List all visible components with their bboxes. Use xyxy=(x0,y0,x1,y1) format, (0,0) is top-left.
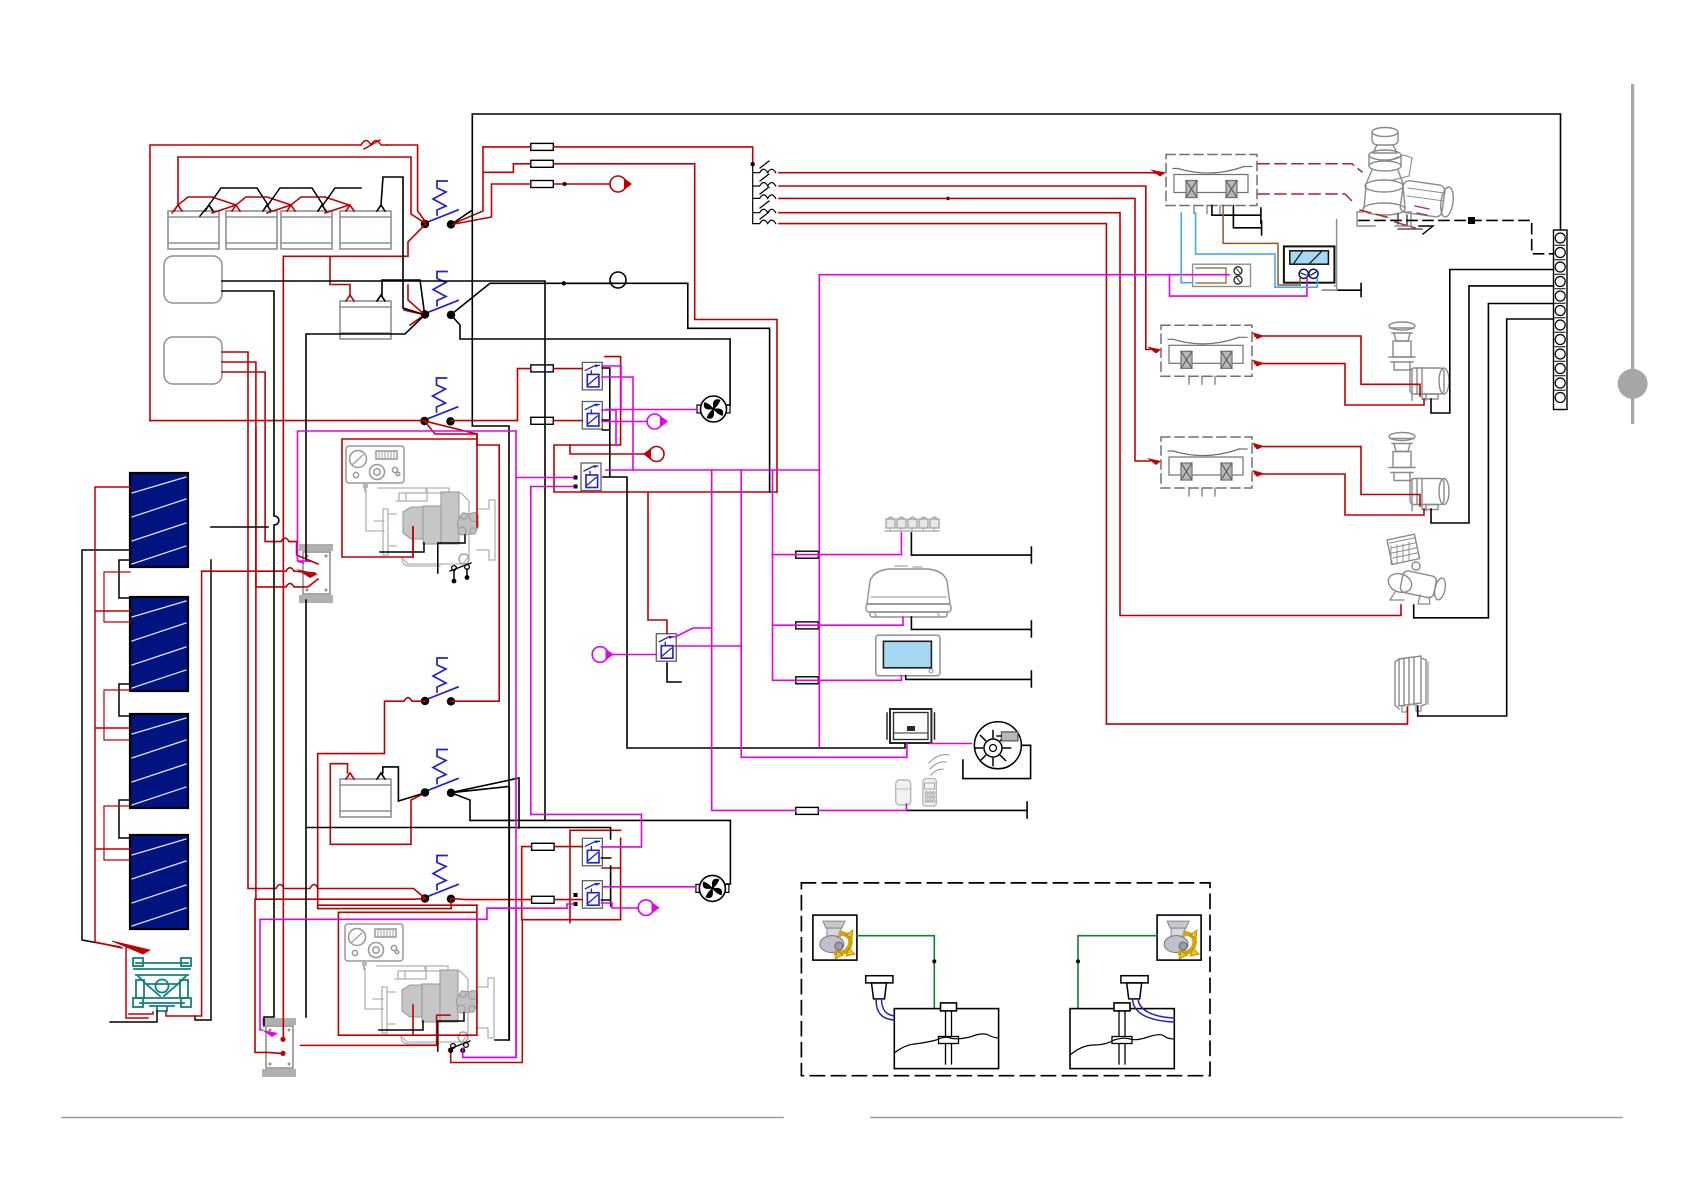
wire red relay fuse feeds xyxy=(518,369,583,421)
wire black b4 to switchB xyxy=(381,177,425,315)
ballast dashed box xyxy=(801,883,1210,1076)
wire magenta main bus xyxy=(606,470,901,555)
engine start battery HB2 xyxy=(340,773,391,817)
wire red switchD right xyxy=(425,421,500,701)
wire red house battery pos xyxy=(330,256,350,296)
battery switch B xyxy=(422,272,458,319)
wire red dashed K1 windlass 2 xyxy=(1258,194,1415,228)
battery switch D xyxy=(422,658,458,705)
wire black bundle vert xyxy=(211,291,279,1026)
battery bank B3 xyxy=(281,205,332,249)
engine 1 red supply loop xyxy=(342,434,477,557)
wire red dashed K1 windlass 1 xyxy=(1258,164,1362,172)
engine 1 starter wires xyxy=(454,569,467,580)
engine 2 assembly xyxy=(345,924,494,1049)
wire black wheel hook xyxy=(963,745,1031,778)
engine 2 red supply loop xyxy=(338,905,477,1035)
wire black K1 stubs xyxy=(1212,206,1261,224)
red connector CN2 xyxy=(649,447,664,462)
black circle connector CN6 xyxy=(610,272,626,288)
wire black junction drop xyxy=(564,283,770,492)
magenta connector CN1 xyxy=(647,414,662,429)
wire magenta CN3 to R6 xyxy=(614,654,657,656)
radar dome xyxy=(866,566,951,617)
fuse FM1 xyxy=(796,551,819,558)
wire red fuse2 run xyxy=(553,164,777,492)
ballast pump icon 1 xyxy=(813,915,857,960)
relay R5 xyxy=(582,881,602,909)
wire cyan K1 to monitor xyxy=(1196,213,1318,287)
red feed down right of panels xyxy=(166,571,202,1016)
fan FN2 xyxy=(696,875,729,901)
green wire pump2 to tank2 xyxy=(1078,936,1157,1009)
battery switch A xyxy=(422,181,458,228)
water tank 1 xyxy=(894,1003,998,1069)
fuse FD xyxy=(532,896,555,903)
fuse FM2 xyxy=(796,622,819,629)
NMEA connector strip xyxy=(885,517,939,531)
wire red switchC out diag xyxy=(425,421,478,434)
battery bank B2 xyxy=(226,205,277,249)
wire red feed A cont xyxy=(387,145,426,222)
wire red switchF bumpy feeds xyxy=(222,352,425,899)
wire red relay cluster vert xyxy=(605,357,621,439)
inverter xyxy=(1395,656,1428,712)
wire cyan K1 to heater xyxy=(1181,213,1192,283)
wire black module1 long run xyxy=(222,281,545,820)
engine 2 glow relay feed xyxy=(301,1015,451,1045)
chartplotter xyxy=(876,635,940,676)
wire black pump1 return xyxy=(1431,270,1554,414)
wire black windlass motor leads xyxy=(1419,226,1433,234)
fuse FM4 xyxy=(796,807,819,814)
solar panel P4 xyxy=(130,835,188,929)
remote mic icons xyxy=(896,779,937,807)
terminal strip TB xyxy=(1554,230,1568,410)
wire black monitor stub xyxy=(1323,284,1362,297)
wire black battery2 neg xyxy=(383,767,426,801)
battery bank B1 xyxy=(168,205,219,249)
fuse FB xyxy=(531,417,554,424)
wire red fuse1 run xyxy=(483,147,753,164)
solar panel P2 xyxy=(130,597,188,691)
wire magenta engine1 glow feed xyxy=(298,431,517,563)
wire black switchE fans xyxy=(451,778,731,1040)
aux relay R6 xyxy=(656,634,676,662)
wire magenta fan2 xyxy=(603,886,696,888)
ships wheel autopilot xyxy=(974,722,1021,769)
wire black house batt neg xyxy=(382,280,425,315)
deck fitting 2 xyxy=(1121,976,1148,999)
wire red feeder row1 xyxy=(779,172,1160,175)
wire red feed B xyxy=(178,157,424,223)
wire red K2 to pump1 xyxy=(1255,336,1424,405)
battery monitor display xyxy=(1284,246,1335,282)
wire red switchA to fuses xyxy=(451,147,531,225)
fuse F1 xyxy=(531,143,554,150)
wire red switchB fan xyxy=(404,285,425,325)
K3 red arrows xyxy=(1147,458,1161,465)
red diamond connector CN5 xyxy=(610,176,626,192)
wire red switchF to fuse D xyxy=(451,899,582,900)
magenta connector CN3 xyxy=(592,647,608,663)
scrollbar track xyxy=(1631,84,1634,424)
wire red K3 to pump2 xyxy=(1255,447,1424,515)
wire magenta CN1 wire xyxy=(602,421,647,423)
wire red bundle to GB2 xyxy=(222,362,425,1053)
engine 2 starter terminal wires xyxy=(451,920,523,1063)
macerator pump xyxy=(1386,534,1448,604)
wire black top bus drop xyxy=(472,114,509,1040)
wire magenta CN4 out xyxy=(602,903,639,908)
wire black bundle vert2 xyxy=(306,315,425,1017)
wire red fuse3 run xyxy=(553,183,610,185)
K1 red arrow xyxy=(1150,170,1166,177)
wire black switchA xyxy=(451,210,472,225)
junction arrow into charger xyxy=(112,941,150,954)
battery bank series jumpers red xyxy=(172,197,349,213)
contactor box K1 windlass xyxy=(1166,155,1257,214)
magenta connector CN4 xyxy=(638,900,654,916)
rounded box module 1 xyxy=(164,256,222,303)
breaker bank 5x xyxy=(753,161,776,224)
wire red feeder row4 xyxy=(779,213,1401,616)
fuse FM3 xyxy=(796,677,819,684)
wire magenta fan1 xyxy=(606,409,697,411)
wire red to CN2 xyxy=(570,445,649,454)
wire magenta relay pins upper xyxy=(602,366,633,470)
solar array wiring left xyxy=(82,550,130,947)
windlass motor xyxy=(1357,128,1455,227)
blue hose 1 xyxy=(876,999,894,1020)
charger loop wires xyxy=(126,948,153,1018)
wire gray monitor xyxy=(1323,220,1337,291)
GB2 magenta arrow xyxy=(262,1030,278,1037)
engine 1 assembly xyxy=(346,446,495,571)
rounded box module 2 xyxy=(164,337,222,384)
wire red main feed A xyxy=(150,145,361,421)
engine glow box GB2 xyxy=(262,1018,296,1077)
fuse F2 xyxy=(531,160,554,167)
wire magenta wheel stub xyxy=(930,743,972,745)
solar charger teal icon xyxy=(133,958,191,1011)
wire magenta remote drop xyxy=(905,804,907,810)
fan FN1 xyxy=(697,396,730,422)
wire black macerator return xyxy=(1414,304,1554,618)
wire red GB1 feeds xyxy=(202,372,318,587)
relay R4 xyxy=(582,838,602,866)
GB2 terminals xyxy=(280,1037,285,1042)
wire red feeder row5 xyxy=(779,224,1408,724)
wire black relay commons xyxy=(602,368,610,476)
wire magenta monitor run xyxy=(819,275,1307,747)
scrollbar thumb xyxy=(1618,369,1648,399)
contactor box K2 pump1 xyxy=(1161,325,1252,384)
wire magenta plotter branch xyxy=(773,555,902,681)
wire black pump2 return xyxy=(1431,286,1554,523)
GB1 red arrow xyxy=(296,569,318,578)
wire red switchD left xyxy=(318,698,426,889)
footer rule left xyxy=(62,1117,783,1119)
solar panel P1 xyxy=(130,473,188,567)
wire red battery2 chain xyxy=(330,764,425,845)
VHF radio xyxy=(887,709,935,743)
wire red cluster2 frame xyxy=(570,830,621,922)
battery bank B4 xyxy=(340,205,391,249)
house battery HB1 xyxy=(340,295,391,339)
relay R2 xyxy=(582,402,602,430)
footer rule right xyxy=(871,1117,1622,1119)
water pump WP2 xyxy=(1389,433,1449,511)
wire black relay3 to VHF xyxy=(603,477,905,748)
wire magenta R6 outputs xyxy=(675,628,741,646)
wire red switchC feed xyxy=(150,420,518,422)
ballast pump icon 2 xyxy=(1157,915,1201,960)
fuse FC xyxy=(532,843,555,850)
wire magenta radar branch xyxy=(773,617,904,625)
wire magenta mid drop xyxy=(712,470,907,810)
relay R3 pin squares xyxy=(574,476,578,480)
wire red feeder row3 xyxy=(779,198,1150,461)
wire red bank to switchA xyxy=(283,224,425,430)
fuse F3 xyxy=(531,181,554,188)
relay R3 xyxy=(581,463,601,491)
green wire pump1 to tank1 xyxy=(857,936,934,1009)
wire magenta VHF run xyxy=(741,470,907,757)
wire magenta engine2 run xyxy=(487,907,516,909)
battery switch C xyxy=(421,378,457,425)
wire black top bus xyxy=(472,114,1560,230)
water tank 2 xyxy=(1070,1003,1174,1069)
wire black switchB fan right xyxy=(451,283,730,405)
wire black inverter return xyxy=(1418,319,1554,716)
wire brown K1 to monitor xyxy=(1223,206,1300,286)
wire black windlass dash xyxy=(1359,220,1554,253)
solar panel P3 xyxy=(130,714,188,808)
battery switch E xyxy=(422,750,458,797)
wire black R6 out xyxy=(667,663,681,682)
wire magenta relay3 pin2 south xyxy=(531,487,642,847)
wire magenta relay5 pins xyxy=(260,904,574,1030)
deck fitting 1 xyxy=(866,976,893,999)
breaker on feed A xyxy=(361,140,387,149)
wire red engine1 starter drop xyxy=(412,527,414,557)
wire magenta strip drop xyxy=(900,533,902,555)
battery bank neg jumpers black xyxy=(200,188,361,216)
wire red feeder row2 xyxy=(779,186,1150,350)
engine 2 alternator wires xyxy=(379,1013,464,1051)
relay R5 pin squares xyxy=(574,893,578,897)
wire black NMEA drops xyxy=(911,533,1031,563)
engine glow box GB1 xyxy=(299,544,333,603)
wire red y492 run xyxy=(554,439,777,634)
wire red fuseC feed xyxy=(522,838,621,919)
wire black relay cluster2 bus xyxy=(306,828,611,907)
fuse FA xyxy=(531,365,554,372)
wire magenta relay3 pin1 to engine loop xyxy=(463,431,574,1057)
battery switch F xyxy=(422,856,458,903)
blue hose 2 xyxy=(1133,999,1175,1022)
water pump WP1 xyxy=(1389,322,1449,400)
relay R1 xyxy=(582,362,602,390)
K2 red arrows xyxy=(1147,347,1161,354)
contactor box K3 pump2 xyxy=(1161,437,1252,496)
water heater xyxy=(1193,264,1251,286)
